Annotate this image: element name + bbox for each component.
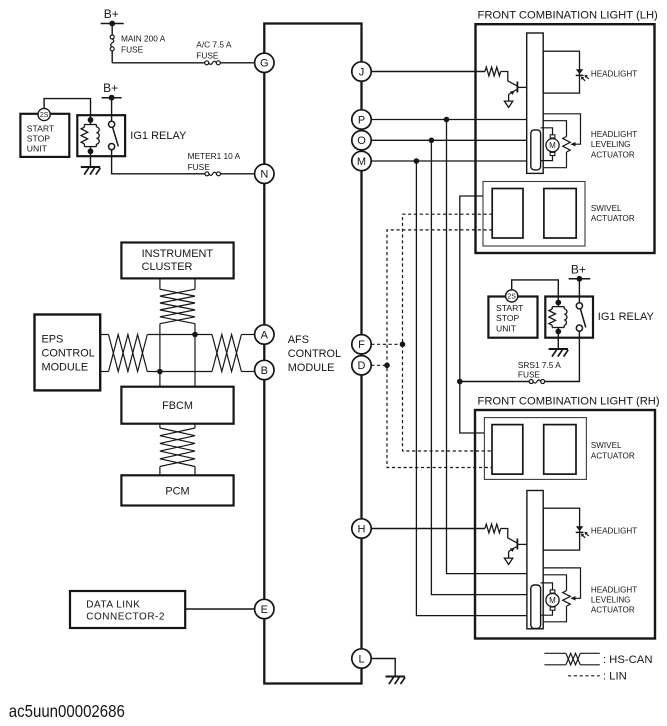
wire 2S to relay coil <box>44 99 90 120</box>
svg-text:LEVELING: LEVELING <box>591 595 631 604</box>
wire emitter to arrow <box>508 552 510 559</box>
svg-text:FBCM: FBCM <box>162 400 193 412</box>
wire swivel power feed (LH to RH) <box>460 196 485 433</box>
junction CAN-H <box>192 332 198 338</box>
svg-text:B+: B+ <box>103 81 118 95</box>
svg-text:HEADLIGHT: HEADLIGHT <box>591 70 637 79</box>
junction LIN F <box>400 342 406 348</box>
transistor (headlight driver) <box>516 539 518 550</box>
twisted pair junction to A/B (HS-CAN) <box>212 335 241 372</box>
right relay coil (resistor + inductor parallel) <box>557 303 559 307</box>
swivel actuator connector block 1 <box>492 425 523 475</box>
svg-text:B+: B+ <box>104 7 119 21</box>
LIN wire node D dashed stub <box>371 364 387 366</box>
svg-text:CONTROL: CONTROL <box>42 348 95 360</box>
LIN bus F to both swivel actuators (dashed) <box>403 214 493 451</box>
svg-text:HEADLIGHT: HEADLIGHT <box>591 527 637 536</box>
wire B+ to main fuse <box>111 24 113 36</box>
LIN bus D to both swivel actuators (dashed) <box>387 230 493 468</box>
svg-text:N: N <box>260 169 268 181</box>
RH light connector <box>527 491 543 629</box>
relay IG1 box (right) <box>545 297 593 338</box>
wire M feed down to RH leveling <box>416 161 531 616</box>
wire CAN verticals to FBCM <box>159 324 161 387</box>
svg-text:CLUSTER: CLUSTER <box>142 261 193 273</box>
wire EPS CAN stubs <box>100 334 108 336</box>
relay coil terminal dots <box>88 117 94 123</box>
swivel actuator connector block 2 <box>544 425 576 475</box>
headlight lamp box <box>543 508 579 550</box>
wire node H to RH headlight driver <box>371 528 485 530</box>
leveling actuator connector <box>531 130 541 170</box>
emitter open arrow (to ground) <box>504 558 512 564</box>
motor supply wires <box>541 583 553 590</box>
node E <box>255 599 274 618</box>
wire SRS1 fuse to swivel feed <box>460 381 529 383</box>
twisted pair FBCM to PCM (HS-CAN) <box>159 424 161 428</box>
front combination light LH box <box>476 24 655 253</box>
connector 2S (left) <box>38 108 50 120</box>
junction O feed <box>429 138 435 144</box>
svg-text:ac5uun00002686: ac5uun00002686 <box>9 701 125 721</box>
node O <box>352 131 371 150</box>
svg-text:ACTUATOR: ACTUATOR <box>591 451 635 460</box>
svg-text:LEVELING: LEVELING <box>591 140 631 149</box>
svg-text:P: P <box>358 114 365 126</box>
wire node O to LH leveling <box>371 139 531 141</box>
svg-text:EPS: EPS <box>42 334 64 346</box>
svg-text:SWIVEL: SWIVEL <box>591 441 622 450</box>
relay IG1 box (left) <box>77 115 125 156</box>
svg-text:INSTRUMENT: INSTRUMENT <box>142 248 214 260</box>
svg-text:FRONT COMBINATION LIGHT (LH): FRONT COMBINATION LIGHT (LH) <box>478 10 659 22</box>
wire right coil to ground <box>557 332 559 349</box>
svg-text:2S: 2S <box>507 293 516 300</box>
FBCM box <box>121 387 233 424</box>
svg-text:M: M <box>549 596 556 605</box>
svg-text:SWIVEL: SWIVEL <box>591 204 622 213</box>
wire node L to ground <box>371 659 395 677</box>
wire B+ to right relay switch <box>578 279 580 303</box>
relay coil (resistor + inductor parallel) <box>90 120 92 125</box>
wire DLC-2 to node E <box>185 608 254 610</box>
node H <box>352 519 371 538</box>
wire relay to METER1 fuse <box>112 150 205 174</box>
svg-text:A/C 7.5 A: A/C 7.5 A <box>196 40 232 50</box>
svg-text:O: O <box>357 135 366 147</box>
node N <box>255 164 274 183</box>
svg-text:STOP: STOP <box>496 313 520 323</box>
instrument cluster box <box>121 243 233 279</box>
svg-text:START: START <box>27 124 55 134</box>
svg-text:UNIT: UNIT <box>496 324 517 334</box>
node G <box>255 53 274 72</box>
leveling actuator connector <box>531 585 541 629</box>
svg-text:ACTUATOR: ACTUATOR <box>591 605 635 614</box>
resistor (headlight driver) <box>485 524 501 533</box>
node P <box>352 110 371 129</box>
connector 2S (right) <box>506 290 518 302</box>
node L <box>352 649 371 668</box>
wire resistor to transistor base <box>501 529 517 543</box>
svg-text:B: B <box>261 365 268 377</box>
svg-text:START: START <box>496 303 524 313</box>
motor supply wires <box>541 128 553 135</box>
legend HS-CAN twisted pair symbol <box>544 652 566 654</box>
LIN wire node F dashed stub <box>371 343 402 345</box>
svg-text:STOP: STOP <box>27 134 51 144</box>
junction CAN-L <box>157 369 163 375</box>
start stop unit box (right) <box>488 297 537 338</box>
resistor (headlight driver) <box>485 67 501 76</box>
svg-text:UNIT: UNIT <box>27 144 48 154</box>
fuse MAIN 200 A <box>110 35 114 39</box>
LED headlight symbol <box>576 526 583 531</box>
swivel actuator connector block 2 <box>544 189 576 239</box>
wire node M to LH leveling <box>371 160 531 162</box>
svg-text:HEADLIGHT: HEADLIGHT <box>591 585 637 594</box>
start stop unit box (left) <box>20 114 69 157</box>
ground (node L) <box>386 676 405 678</box>
wire B+ to IG1 relay switch <box>111 98 113 122</box>
wiper feed loop <box>543 114 580 144</box>
svg-text:F: F <box>358 339 365 351</box>
wire emitter to arrow <box>508 95 510 102</box>
wire CAN to node A <box>241 334 254 336</box>
position sensor loop + potentiometer <box>543 121 566 137</box>
svg-text:IG1 RELAY: IG1 RELAY <box>598 311 655 323</box>
node A <box>255 325 274 344</box>
PCM box <box>121 475 233 505</box>
svg-text:M: M <box>549 141 556 150</box>
swivel actuator outer box <box>483 182 585 247</box>
svg-text:CONNECTOR-2: CONNECTOR-2 <box>86 612 165 623</box>
node D <box>352 356 371 375</box>
twisted pair cluster to junction (HS-CAN) <box>160 289 195 324</box>
svg-text:MAIN 200 A: MAIN 200 A <box>121 34 166 44</box>
svg-text:FUSE: FUSE <box>518 370 541 380</box>
svg-text:IG1 RELAY: IG1 RELAY <box>130 130 187 142</box>
junction LIN D <box>384 363 390 369</box>
svg-text:G: G <box>260 58 269 70</box>
svg-text:B+: B+ <box>571 262 586 276</box>
svg-text:J: J <box>359 66 365 78</box>
data link connector-2 box <box>70 591 185 628</box>
svg-text:: HS-CAN: : HS-CAN <box>603 654 653 666</box>
wire coil to ground <box>90 151 92 167</box>
ground (left relay) <box>81 166 100 168</box>
svg-text:2S: 2S <box>40 112 49 119</box>
junction M feed <box>414 158 420 164</box>
svg-text:PCM: PCM <box>165 486 189 498</box>
svg-text:FUSE: FUSE <box>188 162 211 172</box>
svg-text:FRONT COMBINATION LIGHT (RH): FRONT COMBINATION LIGHT (RH) <box>478 395 660 407</box>
wire resistor to transistor base <box>501 72 517 86</box>
wire A/C fuse to node G <box>220 62 254 64</box>
wire O feed down to RH leveling <box>431 140 531 594</box>
svg-text:CONTROL: CONTROL <box>288 348 341 360</box>
wire main fuse to A/C fuse <box>111 51 113 63</box>
swivel actuator connector block 1 <box>492 189 523 239</box>
svg-text:M: M <box>357 156 366 168</box>
svg-text:E: E <box>261 604 268 616</box>
twisted pair EPS to junction (HS-CAN) <box>109 335 148 372</box>
svg-text:FUSE: FUSE <box>121 45 144 55</box>
junction P feed <box>444 117 450 123</box>
wire P feed down to RH leveling <box>447 120 532 574</box>
node F <box>352 335 371 354</box>
ground (right relay) <box>549 348 568 350</box>
EPS control module box <box>35 315 101 391</box>
wire METER1 fuse to node N <box>221 173 255 175</box>
wiper feed loop <box>543 568 580 598</box>
right relay coil terminal dots <box>555 300 561 306</box>
node B <box>255 360 274 379</box>
wire 2S to right relay coil <box>512 280 559 303</box>
headlight lamp box <box>543 51 579 93</box>
wire cluster CAN stubs <box>159 278 161 289</box>
transistor (headlight driver) <box>516 82 518 93</box>
svg-text:H: H <box>358 523 366 535</box>
motor M (leveling) <box>550 135 555 138</box>
LH light connector <box>527 33 544 173</box>
LED headlight symbol <box>576 69 583 74</box>
motor M (leveling) <box>550 590 555 593</box>
svg-text:D: D <box>358 360 366 372</box>
swivel actuator outer box <box>484 418 586 480</box>
relay switch (left) <box>109 121 115 127</box>
wire node J to LH headlight driver <box>371 71 485 73</box>
svg-text:FUSE: FUSE <box>196 51 219 61</box>
AFS control module U1 box <box>264 24 361 684</box>
front combination light RH box <box>475 410 655 639</box>
position sensor loop + potentiometer <box>543 575 566 591</box>
svg-text:A: A <box>261 329 269 341</box>
svg-text:METER1 10 A: METER1 10 A <box>188 151 241 161</box>
svg-text:HEADLIGHT: HEADLIGHT <box>591 130 637 139</box>
svg-text:ACTUATOR: ACTUATOR <box>591 150 635 159</box>
right relay switch <box>576 303 582 309</box>
wire CAN to node B <box>241 371 255 373</box>
wire CAN horizontal middle <box>147 371 212 373</box>
svg-text:: LIN: : LIN <box>603 671 627 683</box>
emitter open arrow (to ground) <box>504 101 512 107</box>
wire node P to LH leveling <box>371 119 531 121</box>
svg-text:MODULE: MODULE <box>42 362 89 374</box>
node J <box>352 62 371 81</box>
svg-text:L: L <box>358 653 364 665</box>
svg-text:SRS1 7.5 A: SRS1 7.5 A <box>518 360 561 370</box>
svg-text:AFS: AFS <box>288 334 309 346</box>
svg-text:MODULE: MODULE <box>288 362 335 374</box>
node M <box>352 151 371 170</box>
legend LIN dashed symbol <box>568 675 600 677</box>
wire right relay to SRS1 fuse <box>545 331 580 381</box>
svg-text:ACTUATOR: ACTUATOR <box>591 214 635 223</box>
junction swivel feed <box>457 379 463 385</box>
svg-text:DATA LINK: DATA LINK <box>86 599 140 610</box>
